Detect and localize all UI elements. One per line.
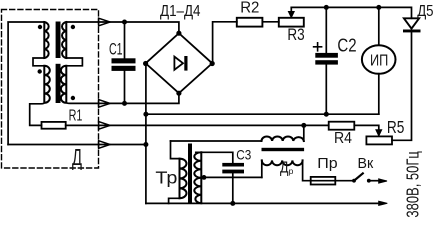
fuse Pr	[311, 177, 336, 185]
svg-text:Вк: Вк	[358, 156, 374, 172]
wire Tr primary top to choke	[171, 140, 262, 142]
transformer T1 upper-left winding	[44, 22, 48, 58]
svg-text:ИП: ИП	[370, 52, 388, 69]
wire left vertical and top lead	[8, 22, 44, 145]
capacitor C1 lead top	[124, 22, 126, 58]
choke Dr upper winding	[262, 137, 304, 142]
wire lower-right winding to bridge bottom	[66, 93, 179, 103]
connector arrow 1	[99, 18, 110, 26]
transformer Tr primary top lead	[171, 141, 180, 159]
potentiometer R5 wiper arrowhead	[376, 130, 382, 136]
resistor R4	[329, 122, 355, 130]
capacitor C3 lead bottom	[232, 173, 234, 203]
switch Vk lever	[354, 173, 363, 180]
wire bottom to arrow 4	[8, 144, 146, 146]
node dot upper-left winding	[38, 25, 42, 29]
wire bridge minus vertical	[145, 64, 147, 204]
node dot C1 bottom	[122, 101, 127, 106]
wire R4 to R5 wiper	[354, 125, 379, 130]
svg-text:Д1–Д4: Д1–Д4	[160, 3, 201, 20]
wire choke lower-right to fuse	[303, 160, 311, 180]
wire top from box to bridge	[66, 22, 179, 33]
connector arrow 3	[99, 122, 110, 130]
node dot C1 top	[122, 20, 127, 25]
connector arrow 4	[99, 141, 110, 149]
arrow output bottom	[379, 201, 388, 205]
transformer Tr secondary winding	[194, 152, 201, 203]
transformer T1 core lower bar	[56, 64, 61, 103]
dashed enclosure box Д	[2, 10, 99, 169]
capacitor C2 lead bottom	[325, 65, 327, 115]
switch Vk left contact	[352, 179, 356, 183]
wire D5 cathode to R5	[392, 31, 412, 140]
wire jog left windings series	[33, 58, 44, 66]
transformer T1 core upper bar	[56, 22, 61, 59]
wire bridge plus to R2	[213, 22, 237, 64]
potentiometer R5	[366, 136, 392, 144]
transformer Tr primary winding	[180, 159, 187, 199]
wire switch to arrow	[369, 180, 379, 182]
wire choke upper right riser	[303, 125, 305, 141]
svg-text:С1: С1	[109, 40, 123, 59]
svg-text:R2: R2	[240, 0, 259, 17]
transformer T1 lower-right winding	[61, 66, 66, 103]
node dot C2 top	[324, 5, 329, 10]
transformer Tr secondary top lead to C3	[196, 152, 233, 163]
resistor R2	[237, 18, 263, 27]
switch Vk right contact	[367, 179, 371, 183]
capacitor C3 plates	[222, 163, 244, 167]
wire top plus rail	[291, 7, 411, 18]
wire R1 to arrow	[66, 124, 329, 126]
meter IP circle	[362, 45, 396, 74]
connector arrow 2	[99, 100, 110, 108]
node dot minus bus junction	[143, 112, 148, 117]
meter IP leads	[378, 7, 380, 114]
wire R2 to R3	[262, 21, 278, 23]
svg-text:р: р	[289, 166, 294, 176]
resistor R1	[42, 122, 66, 129]
wire bottom bus	[146, 202, 379, 204]
node dot upper-right winding	[71, 25, 75, 29]
transformer Tr core bar	[188, 144, 192, 204]
capacitor C1 lead bottom	[124, 71, 126, 104]
transformer T1 upper-right winding	[62, 22, 66, 58]
bridge diode symbol	[174, 57, 183, 70]
transformer T1 lower-left winding	[44, 66, 50, 103]
node dot lower-left winding	[38, 69, 42, 73]
svg-text:Д: Д	[72, 144, 82, 170]
potentiometer R3 wiper	[290, 7, 292, 12]
diode bridge D1-D4 diamond	[146, 33, 213, 93]
wire minus bus horizontal	[146, 113, 379, 115]
node dot C2 bottom	[324, 112, 329, 117]
svg-text:Д: Д	[280, 160, 289, 177]
plus sign C2	[314, 43, 322, 51]
svg-text:Пр: Пр	[317, 156, 337, 172]
wire choke lower-left to tap	[261, 160, 263, 177]
diode D5	[404, 18, 419, 28]
node dot IP top	[376, 5, 381, 10]
wire jog right windings series	[66, 58, 82, 66]
potentiometer R3	[279, 18, 304, 27]
svg-text:Тр: Тр	[155, 167, 177, 187]
wire secondary center tap	[201, 176, 261, 178]
svg-text:R1: R1	[69, 107, 83, 124]
capacitor C1 plates	[112, 58, 136, 63]
wire lower-left winding to R1	[30, 103, 45, 126]
wire through fuse	[311, 180, 354, 182]
node dot lower-right winding	[71, 96, 75, 100]
capacitor C2 plates	[315, 53, 338, 58]
choke Dr lower winding	[262, 160, 303, 165]
svg-text:380В, 50Гц: 380В, 50Гц	[402, 151, 422, 217]
node dots bridge vertices	[176, 31, 181, 36]
choke Dr core bar	[262, 148, 305, 151]
svg-text:R3: R3	[287, 26, 304, 44]
svg-text:R4: R4	[334, 130, 352, 147]
svg-text:R5: R5	[387, 117, 405, 137]
svg-text:С2: С2	[337, 36, 356, 56]
node dot center tap	[202, 175, 207, 180]
node dot choke top junction	[301, 123, 306, 128]
arrow output fuse line	[379, 179, 387, 183]
node dot C3 bottom	[230, 201, 235, 206]
node dot arrow4 junction	[143, 142, 148, 147]
transformer Tr primary bottom lead	[169, 198, 180, 203]
svg-text:С3: С3	[236, 147, 251, 163]
svg-text:Д5: Д5	[417, 3, 433, 20]
capacitor C2 lead top	[325, 7, 327, 53]
